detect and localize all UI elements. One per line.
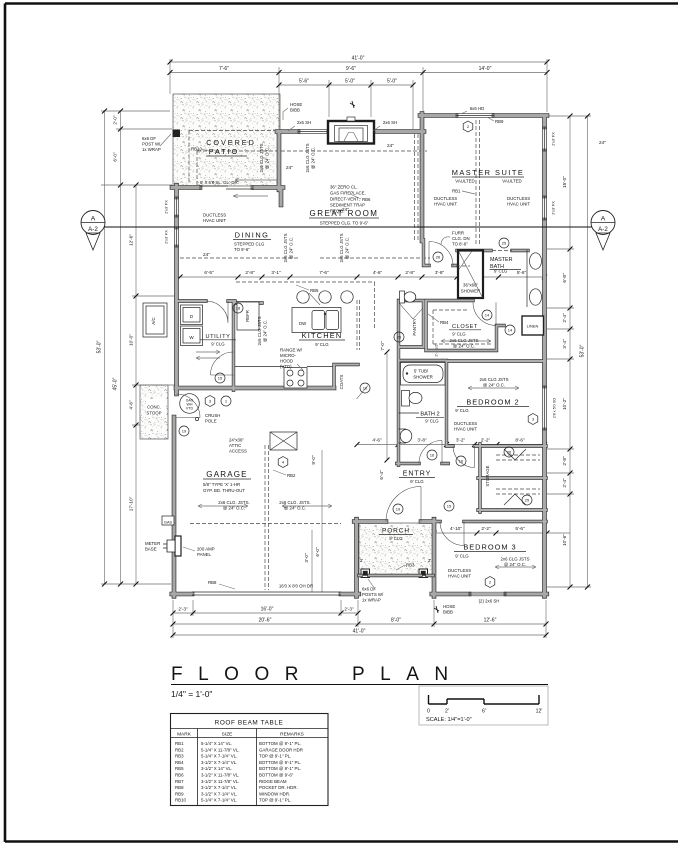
svg-text:RB5: RB5 bbox=[310, 288, 319, 293]
svg-text:7'-0": 7'-0" bbox=[380, 341, 385, 351]
svg-text:15'-0": 15'-0" bbox=[562, 176, 567, 188]
svg-text:HVAC UNIT: HVAC UNIT bbox=[203, 218, 226, 223]
svg-text:RB10: RB10 bbox=[191, 147, 202, 152]
svg-text:9' CLG: 9' CLG bbox=[494, 269, 508, 274]
bottom dim row 1 bbox=[173, 612, 358, 614]
window: patio slider bbox=[200, 185, 253, 190]
svg-text:HOSE: HOSE bbox=[443, 604, 455, 609]
svg-text:CLG. DN: CLG. DN bbox=[452, 236, 470, 241]
svg-text:2'x3' FX: 2'x3' FX bbox=[552, 201, 556, 215]
refrigerator bbox=[237, 302, 259, 330]
svg-text:SEDIMENT TRAP: SEDIMENT TRAP bbox=[330, 203, 365, 208]
bath2 tub bbox=[401, 363, 446, 386]
svg-text:ACCESS: ACCESS bbox=[229, 449, 247, 454]
svg-text:24": 24" bbox=[286, 165, 293, 170]
svg-text:VTD: VTD bbox=[186, 407, 194, 411]
svg-text:PLAN: PLAN bbox=[352, 664, 464, 685]
svg-text:DW: DW bbox=[299, 321, 307, 326]
svg-text:10'-2": 10'-2" bbox=[562, 398, 567, 410]
svg-text:VAULTED: VAULTED bbox=[455, 179, 474, 184]
svg-text:2x6 CLG JSTS: 2x6 CLG JSTS bbox=[339, 233, 344, 262]
svg-text:RB2: RB2 bbox=[175, 747, 184, 752]
svg-text:53'-0": 53'-0" bbox=[97, 340, 103, 353]
svg-text:9' CLG: 9' CLG bbox=[455, 554, 469, 559]
svg-text:8'-6": 8'-6" bbox=[515, 438, 525, 443]
slider arrow bbox=[233, 194, 268, 198]
porch edge walls bbox=[359, 574, 433, 577]
exterior walls black edge bbox=[172, 114, 547, 597]
svg-text:BEDROOM 3: BEDROOM 3 bbox=[463, 543, 516, 552]
svg-text:10'-0": 10'-0" bbox=[129, 334, 134, 346]
svg-text:RB7: RB7 bbox=[175, 779, 184, 784]
svg-text:HOSE: HOSE bbox=[290, 102, 302, 107]
svg-text:DUCTLESS: DUCTLESS bbox=[507, 196, 530, 201]
svg-text:2'-4": 2'-4" bbox=[562, 313, 567, 323]
svg-text:7'-6": 7'-6" bbox=[219, 66, 229, 72]
svg-text:2': 2' bbox=[428, 558, 431, 563]
svg-text:A: A bbox=[91, 216, 96, 223]
svg-text:2x6 CLG JSTS: 2x6 CLG JSTS bbox=[259, 143, 264, 172]
svg-text:@ 24" O.C.: @ 24" O.C. bbox=[223, 506, 245, 511]
window hex tags bbox=[205, 121, 538, 588]
window master north bbox=[456, 114, 494, 118]
svg-text:3-1/2" X 7-1/4" VL.: 3-1/2" X 7-1/4" VL. bbox=[201, 785, 237, 790]
extension lines right bbox=[547, 116, 591, 587]
svg-text:3'-2": 3'-2" bbox=[456, 438, 466, 443]
patio post bbox=[173, 130, 181, 138]
svg-text:PANEL: PANEL bbox=[197, 552, 212, 557]
left dim col 2 bbox=[120, 111, 122, 584]
svg-text:A-2: A-2 bbox=[88, 226, 98, 233]
svg-text:3'-4": 3'-4" bbox=[562, 339, 567, 349]
svg-text:2x6 CLG JSTS: 2x6 CLG JSTS bbox=[501, 557, 530, 562]
svg-text:9'-0": 9'-0" bbox=[311, 455, 316, 465]
svg-text:RB10: RB10 bbox=[175, 798, 187, 803]
svg-text:26: 26 bbox=[507, 450, 512, 455]
svg-text:18: 18 bbox=[236, 306, 241, 311]
joist arrows bbox=[152, 308, 220, 360]
master wc bbox=[400, 291, 405, 303]
svg-text:HVAC UNIT: HVAC UNIT bbox=[434, 202, 457, 207]
interior dim row A (kitchen/bath) bbox=[176, 276, 545, 278]
svg-text:BOTTOM @ 9'-6": BOTTOM @ 9'-6" bbox=[259, 773, 294, 778]
section markers bbox=[81, 211, 615, 251]
interior walls gray core bbox=[176, 240, 546, 522]
svg-text:19: 19 bbox=[182, 429, 187, 434]
svg-text:19: 19 bbox=[396, 507, 401, 512]
master shower bbox=[458, 251, 483, 299]
svg-text:2'-8": 2'-8" bbox=[562, 456, 567, 466]
svg-text:TO 8'-6": TO 8'-6" bbox=[452, 242, 468, 247]
svg-text:DUCTLESS: DUCTLESS bbox=[454, 421, 477, 426]
svg-text:2x6 SH: 2x6 SH bbox=[383, 120, 397, 125]
svg-text:8'-0": 8'-0" bbox=[391, 618, 401, 624]
svg-text:6x6 DF: 6x6 DF bbox=[362, 587, 376, 592]
svg-text:0: 0 bbox=[427, 709, 430, 715]
bath2 sink bbox=[399, 429, 406, 443]
windows east wall bbox=[543, 127, 547, 151]
svg-text:KITCHEN: KITCHEN bbox=[302, 331, 343, 340]
svg-text:14: 14 bbox=[485, 313, 490, 318]
svg-text:9' CLG: 9' CLG bbox=[425, 419, 439, 424]
svg-text:6': 6' bbox=[482, 709, 486, 715]
svg-text:16: 16 bbox=[430, 453, 435, 458]
svg-text:9' CLG: 9' CLG bbox=[389, 536, 403, 541]
exterior walls gray core bbox=[172, 114, 547, 597]
svg-text:RB3: RB3 bbox=[175, 754, 184, 759]
svg-text:@ 24" O.C.: @ 24" O.C. bbox=[289, 237, 294, 259]
gas water heater bbox=[180, 394, 200, 414]
svg-text:16'0 X 8'0 OH DR: 16'0 X 8'0 OH DR bbox=[279, 584, 313, 589]
fireplace bbox=[328, 117, 374, 144]
kitchen island with sink bbox=[292, 308, 341, 333]
svg-text:@ 24" O.C.: @ 24" O.C. bbox=[311, 147, 316, 169]
svg-text:4'-10": 4'-10" bbox=[450, 526, 462, 531]
svg-text:4'-6": 4'-6" bbox=[373, 270, 383, 275]
svg-text:9' CLG: 9' CLG bbox=[211, 342, 225, 347]
svg-text:STEPPED CLG: STEPPED CLG bbox=[234, 242, 265, 247]
svg-text:2'-8": 2'-8" bbox=[405, 270, 415, 275]
extension lines bottom bbox=[173, 600, 546, 638]
right dim col 1 bbox=[569, 116, 571, 587]
interior dim row C (bed3) bbox=[434, 532, 570, 534]
interior walls black edge bbox=[176, 240, 546, 522]
svg-text:CLOSET: CLOSET bbox=[452, 324, 478, 330]
svg-text:RANGE W/: RANGE W/ bbox=[280, 348, 303, 353]
svg-text:SHOWER: SHOWER bbox=[461, 289, 481, 294]
svg-text:2'x3' FX: 2'x3' FX bbox=[165, 230, 169, 244]
svg-text:RB3: RB3 bbox=[406, 563, 415, 568]
svg-text:6'-8": 6'-8" bbox=[562, 273, 567, 283]
200 amp panel bbox=[175, 536, 181, 556]
svg-text:FURR: FURR bbox=[452, 231, 464, 236]
svg-text:MICRO-: MICRO- bbox=[280, 353, 296, 358]
svg-text:3'-1": 3'-1" bbox=[271, 270, 281, 275]
svg-text:6x6 DF: 6x6 DF bbox=[142, 136, 156, 141]
svg-text:SIZE: SIZE bbox=[222, 732, 233, 738]
svg-text:2x6 CLG JSTS: 2x6 CLG JSTS bbox=[283, 233, 288, 262]
svg-text:5' TUB/: 5' TUB/ bbox=[414, 369, 429, 374]
svg-text:PORCH: PORCH bbox=[382, 528, 410, 535]
svg-text:A/C: A/C bbox=[151, 317, 156, 325]
svg-text:@ 24" O.C.: @ 24" O.C. bbox=[263, 320, 268, 342]
master vault dashed bbox=[415, 120, 480, 245]
storage shelves dashed bbox=[496, 455, 540, 494]
door tags circles bbox=[179, 238, 532, 514]
svg-text:3'-0": 3'-0" bbox=[304, 553, 309, 563]
svg-text:@ 24" O.C.: @ 24" O.C. bbox=[483, 383, 505, 388]
svg-text:5-1/4" X 11-7/8" VL.: 5-1/4" X 11-7/8" VL. bbox=[201, 747, 239, 752]
svg-text:POST W/: POST W/ bbox=[142, 142, 161, 147]
linen bbox=[522, 316, 544, 335]
svg-text:MARK: MARK bbox=[177, 732, 192, 738]
svg-text:RB5: RB5 bbox=[175, 766, 184, 771]
svg-text:2x6 CLG JSTS: 2x6 CLG JSTS bbox=[305, 143, 310, 172]
svg-text:9' CLG: 9' CLG bbox=[452, 332, 466, 337]
svg-text:RB2: RB2 bbox=[287, 473, 296, 478]
svg-text:SHOWER: SHOWER bbox=[413, 375, 433, 380]
svg-text:14: 14 bbox=[508, 328, 513, 333]
svg-text:5'-0": 5'-0" bbox=[387, 79, 397, 85]
svg-text:9' CLG: 9' CLG bbox=[455, 408, 469, 413]
svg-text:RB6: RB6 bbox=[175, 773, 184, 778]
svg-text:12'-6": 12'-6" bbox=[129, 234, 134, 246]
svg-text:RB9: RB9 bbox=[495, 119, 504, 124]
svg-text:HOOD: HOOD bbox=[280, 359, 293, 364]
master vanity bbox=[526, 250, 528, 307]
svg-text:@ 24" O.C.: @ 24" O.C. bbox=[284, 506, 306, 511]
gas meter bbox=[162, 516, 174, 525]
svg-text:12': 12' bbox=[536, 709, 543, 715]
stepped ceiling dashed lines bbox=[180, 151, 430, 258]
hose bibb bottom bbox=[434, 606, 439, 613]
svg-text:TO 9'-6": TO 9'-6" bbox=[234, 247, 250, 252]
svg-text:DUCTLESS: DUCTLESS bbox=[203, 213, 226, 218]
svg-text:24": 24" bbox=[599, 140, 606, 145]
svg-text:3-1/2" X 7-1/4" VL.: 3-1/2" X 7-1/4" VL. bbox=[201, 791, 237, 796]
svg-text:2'x3' FX: 2'x3' FX bbox=[552, 132, 556, 146]
svg-text:GYP. BD. THRU-OUT: GYP. BD. THRU-OUT bbox=[203, 488, 245, 493]
svg-text:BEDROOM 2: BEDROOM 2 bbox=[466, 398, 519, 407]
svg-text:(2) 2x6 SH: (2) 2x6 SH bbox=[479, 599, 500, 604]
svg-text:2x6 CLG JSTS: 2x6 CLG JSTS bbox=[257, 316, 262, 345]
svg-text:MASTER: MASTER bbox=[490, 257, 513, 263]
svg-text:24": 24" bbox=[203, 252, 210, 257]
svg-text:@ 24" O.C.: @ 24" O.C. bbox=[265, 147, 270, 169]
svg-text:POLE: POLE bbox=[205, 419, 217, 424]
svg-text:25: 25 bbox=[397, 335, 402, 340]
svg-text:HVAC UNIT: HVAC UNIT bbox=[454, 427, 477, 432]
window great room north bbox=[298, 130, 327, 134]
svg-text:36"x60": 36"x60" bbox=[463, 283, 478, 288]
svg-text:VAULTED: VAULTED bbox=[502, 179, 521, 184]
svg-text:26: 26 bbox=[436, 255, 441, 260]
svg-text:6'-5": 6'-5" bbox=[204, 270, 214, 275]
svg-text:20'-6": 20'-6" bbox=[259, 618, 272, 624]
svg-text:UTILITY: UTILITY bbox=[205, 334, 230, 340]
top dim row 1 bbox=[170, 61, 547, 63]
extension lines top bbox=[170, 59, 547, 129]
top dim row 2 bbox=[170, 72, 547, 74]
svg-text:RB8: RB8 bbox=[175, 785, 184, 790]
svg-text:5'-6": 5'-6" bbox=[299, 79, 309, 85]
svg-text:12'-6": 12'-6" bbox=[484, 618, 497, 624]
svg-text:(VTD): (VTD) bbox=[280, 364, 292, 369]
svg-text:6'-0": 6'-0" bbox=[113, 152, 118, 162]
svg-text:CRUSH: CRUSH bbox=[205, 413, 220, 418]
svg-text:DUCTLESS: DUCTLESS bbox=[434, 196, 457, 201]
covered patio slab bbox=[173, 94, 280, 186]
right dim col 2 bbox=[587, 116, 589, 587]
svg-text:2'-2": 2'-2" bbox=[481, 438, 491, 443]
svg-text:36" ZERO CL.: 36" ZERO CL. bbox=[330, 185, 358, 190]
svg-text:3-1/2" X 11-7/8" VL.: 3-1/2" X 11-7/8" VL. bbox=[201, 773, 239, 778]
svg-text:A: A bbox=[601, 216, 606, 223]
svg-text:3-1/2" X 14" VL.: 3-1/2" X 14" VL. bbox=[201, 766, 232, 771]
svg-text:POSTS W/: POSTS W/ bbox=[362, 592, 384, 597]
svg-text:2': 2' bbox=[360, 558, 363, 563]
svg-text:3'-8": 3'-8" bbox=[417, 438, 427, 443]
kitchen soffit dashed bbox=[236, 282, 375, 350]
svg-text:BOTTOM @ 9'-1" PL.: BOTTOM @ 9'-1" PL. bbox=[259, 741, 301, 746]
svg-text:5'-6": 5'-6" bbox=[515, 526, 525, 531]
garage ceiling dashed bbox=[190, 445, 341, 590]
svg-text:TOP @ 9'-1" PL.: TOP @ 9'-1" PL. bbox=[259, 798, 291, 803]
svg-text:WINDOW HDR.: WINDOW HDR. bbox=[259, 791, 290, 796]
graphic scale bar bbox=[419, 686, 548, 725]
entry vertical dim bbox=[386, 352, 388, 460]
svg-text:6'-4": 6'-4" bbox=[379, 470, 384, 480]
svg-text:RB4: RB4 bbox=[175, 760, 184, 765]
svg-text:ROOF BEAM TABLE: ROOF BEAM TABLE bbox=[215, 720, 284, 727]
svg-text:1x WRAP: 1x WRAP bbox=[362, 598, 381, 603]
svg-text:RB1: RB1 bbox=[452, 189, 461, 194]
svg-text:9' CLG: 9' CLG bbox=[315, 342, 329, 347]
roof beam table bbox=[171, 714, 329, 806]
svg-text:6'-0": 6'-0" bbox=[315, 547, 320, 557]
svg-text:RB9: RB9 bbox=[175, 791, 184, 796]
svg-text:ATTIC: ATTIC bbox=[229, 443, 241, 448]
svg-text:CONC.: CONC. bbox=[147, 405, 161, 410]
svg-text:9' CLG: 9' CLG bbox=[410, 479, 424, 484]
svg-text:15: 15 bbox=[447, 504, 452, 509]
porch slab bbox=[359, 523, 433, 576]
section cut line A-A bbox=[104, 226, 592, 228]
extension lines left bbox=[101, 111, 176, 584]
A/C unit bbox=[143, 303, 167, 337]
svg-text:SCALE: 1/4"=1'-0": SCALE: 1/4"=1'-0" bbox=[426, 717, 472, 723]
svg-text:2x6 CLG JSTS: 2x6 CLG JSTS bbox=[480, 377, 509, 382]
svg-text:BIBB: BIBB bbox=[443, 610, 453, 615]
svg-text:10'-6": 10'-6" bbox=[562, 534, 567, 546]
svg-text:3'-8": 3'-8" bbox=[435, 270, 445, 275]
bar stools bbox=[297, 291, 309, 303]
svg-text:5-1/4" X 7-1/4" VL.: 5-1/4" X 7-1/4" VL. bbox=[201, 754, 237, 759]
svg-text:PANTRY: PANTRY bbox=[412, 318, 417, 335]
conc stoop bbox=[140, 385, 168, 439]
crush pole dot bbox=[195, 417, 198, 420]
svg-text:COVERED: COVERED bbox=[206, 138, 256, 147]
porch posts bbox=[361, 569, 370, 578]
bottom dim row 3 bbox=[173, 634, 546, 636]
svg-text:3-1/2" X 7-1/4" VL.: 3-1/2" X 7-1/4" VL. bbox=[201, 760, 237, 765]
svg-text:2'-8": 2'-8" bbox=[245, 270, 255, 275]
svg-text:2x6 CLG JSTS: 2x6 CLG JSTS bbox=[450, 338, 479, 343]
top dim row 3 bbox=[279, 84, 413, 86]
svg-text:2'-3": 2'-3" bbox=[344, 607, 354, 612]
door arcs bbox=[386, 487, 421, 522]
svg-text:BIBB: BIBB bbox=[290, 108, 300, 113]
svg-text:BOTTOM @ 9'-1" PL.: BOTTOM @ 9'-1" PL. bbox=[259, 766, 301, 771]
garage interior dims bbox=[312, 450, 322, 592]
svg-text:16: 16 bbox=[459, 459, 464, 464]
svg-text:RB1: RB1 bbox=[175, 741, 184, 746]
svg-text:53'-0": 53'-0" bbox=[580, 344, 586, 357]
svg-text:DUCTLESS: DUCTLESS bbox=[448, 568, 471, 573]
svg-text:ENTRY: ENTRY bbox=[403, 471, 432, 478]
svg-text:16: 16 bbox=[363, 386, 368, 391]
range bbox=[284, 368, 307, 389]
svg-text:STEPPED CLG. TO 9'-6": STEPPED CLG. TO 9'-6" bbox=[320, 221, 369, 226]
svg-text:6x6 HD: 6x6 HD bbox=[470, 106, 484, 111]
svg-text:GARAGE: GARAGE bbox=[206, 470, 247, 479]
svg-text:COATS: COATS bbox=[339, 375, 344, 390]
left dim col 3 bbox=[135, 185, 137, 584]
svg-text:BOTTOM @ 9'-1" PL.: BOTTOM @ 9'-1" PL. bbox=[259, 760, 301, 765]
svg-text:2x6 CLG. JSTS.: 2x6 CLG. JSTS. bbox=[218, 500, 249, 505]
svg-text:41'-0": 41'-0" bbox=[353, 629, 366, 635]
svg-text:17'-10": 17'-10" bbox=[129, 496, 134, 511]
svg-text:24": 24" bbox=[387, 143, 394, 148]
svg-text:POCKET DR. HDR.: POCKET DR. HDR. bbox=[259, 785, 298, 790]
svg-text:STOOP: STOOP bbox=[146, 411, 161, 416]
svg-text:3-1/2" X 11-7/8" VL.: 3-1/2" X 11-7/8" VL. bbox=[201, 779, 239, 784]
svg-text:41'-0": 41'-0" bbox=[352, 56, 365, 62]
svg-text:PATIO: PATIO bbox=[209, 147, 240, 156]
svg-text:25: 25 bbox=[502, 241, 507, 246]
svg-text:GAS FIREPLACE.: GAS FIREPLACE. bbox=[330, 191, 366, 196]
svg-text:FLOOR: FLOOR bbox=[171, 664, 314, 685]
washer dryer bbox=[181, 305, 203, 325]
svg-text:4'-6": 4'-6" bbox=[129, 400, 134, 410]
svg-text:RB4: RB4 bbox=[440, 320, 449, 325]
svg-text:16'-0": 16'-0" bbox=[261, 607, 274, 613]
svg-text:GARAGE DOOR HDR: GARAGE DOOR HDR bbox=[259, 747, 303, 752]
svg-text:DINING: DINING bbox=[235, 231, 270, 240]
svg-text:5-1/4" X 14" VL.: 5-1/4" X 14" VL. bbox=[201, 741, 232, 746]
patio roof dashed bbox=[189, 131, 277, 185]
svg-text:2x6 SH: 2x6 SH bbox=[297, 120, 311, 125]
svg-text:MASTER SUITE: MASTER SUITE bbox=[452, 168, 525, 177]
svg-text:BASE: BASE bbox=[145, 547, 157, 552]
svg-text:5'-0": 5'-0" bbox=[345, 79, 355, 85]
svg-text:@ 24" O.C.: @ 24" O.C. bbox=[345, 237, 350, 259]
svg-text:@ 24" O.C.: @ 24" O.C. bbox=[453, 344, 475, 349]
garage door bbox=[192, 592, 341, 595]
svg-text:DIRECT-VENT,: DIRECT-VENT, bbox=[330, 197, 360, 202]
svg-text:2'x3' FX: 2'x3' FX bbox=[165, 200, 169, 214]
svg-text:15: 15 bbox=[218, 376, 223, 381]
attic access bbox=[270, 432, 297, 450]
svg-text:BATH 2: BATH 2 bbox=[420, 412, 439, 418]
svg-text:HVAC UNIT: HVAC UNIT bbox=[448, 574, 471, 579]
svg-text:HVAC UNIT: HVAC UNIT bbox=[507, 202, 530, 207]
svg-text:5-1/4" X 7-1/4" VL.: 5-1/4" X 7-1/4" VL. bbox=[201, 798, 237, 803]
svg-text:4'-6": 4'-6" bbox=[372, 438, 382, 443]
svg-text:A-2: A-2 bbox=[598, 226, 608, 233]
svg-text:2': 2' bbox=[445, 709, 449, 715]
svg-text:RIDGE BEAM: RIDGE BEAM bbox=[259, 779, 287, 784]
svg-text:RB8: RB8 bbox=[208, 580, 217, 585]
svg-text:@ 24" O.C.: @ 24" O.C. bbox=[504, 562, 526, 567]
svg-text:TOP @ 9'-1" PL.: TOP @ 9'-1" PL. bbox=[259, 754, 291, 759]
svg-text:24"x36": 24"x36" bbox=[229, 438, 244, 443]
svg-text:5'-6": 5'-6" bbox=[517, 270, 527, 275]
svg-text:REMARKS: REMARKS bbox=[280, 732, 304, 738]
svg-text:GAS: GAS bbox=[164, 521, 172, 525]
svg-text:2'-4": 2'-4" bbox=[562, 478, 567, 488]
svg-text:7'-6": 7'-6" bbox=[319, 270, 329, 275]
hose bibb top bbox=[350, 101, 355, 108]
svg-text:STORAGE: STORAGE bbox=[485, 465, 490, 486]
svg-text:2'-2": 2'-2" bbox=[481, 526, 491, 531]
svg-text:14'-0": 14'-0" bbox=[479, 66, 492, 72]
bath2 partition bbox=[399, 412, 420, 414]
svg-text:2'-3": 2'-3" bbox=[178, 607, 188, 612]
interior dim row B (hall/bed2) bbox=[357, 444, 545, 446]
svg-text:5/8" TYPE 'X' 1-HR: 5/8" TYPE 'X' 1-HR bbox=[203, 482, 240, 487]
svg-text:RB6: RB6 bbox=[362, 197, 371, 202]
